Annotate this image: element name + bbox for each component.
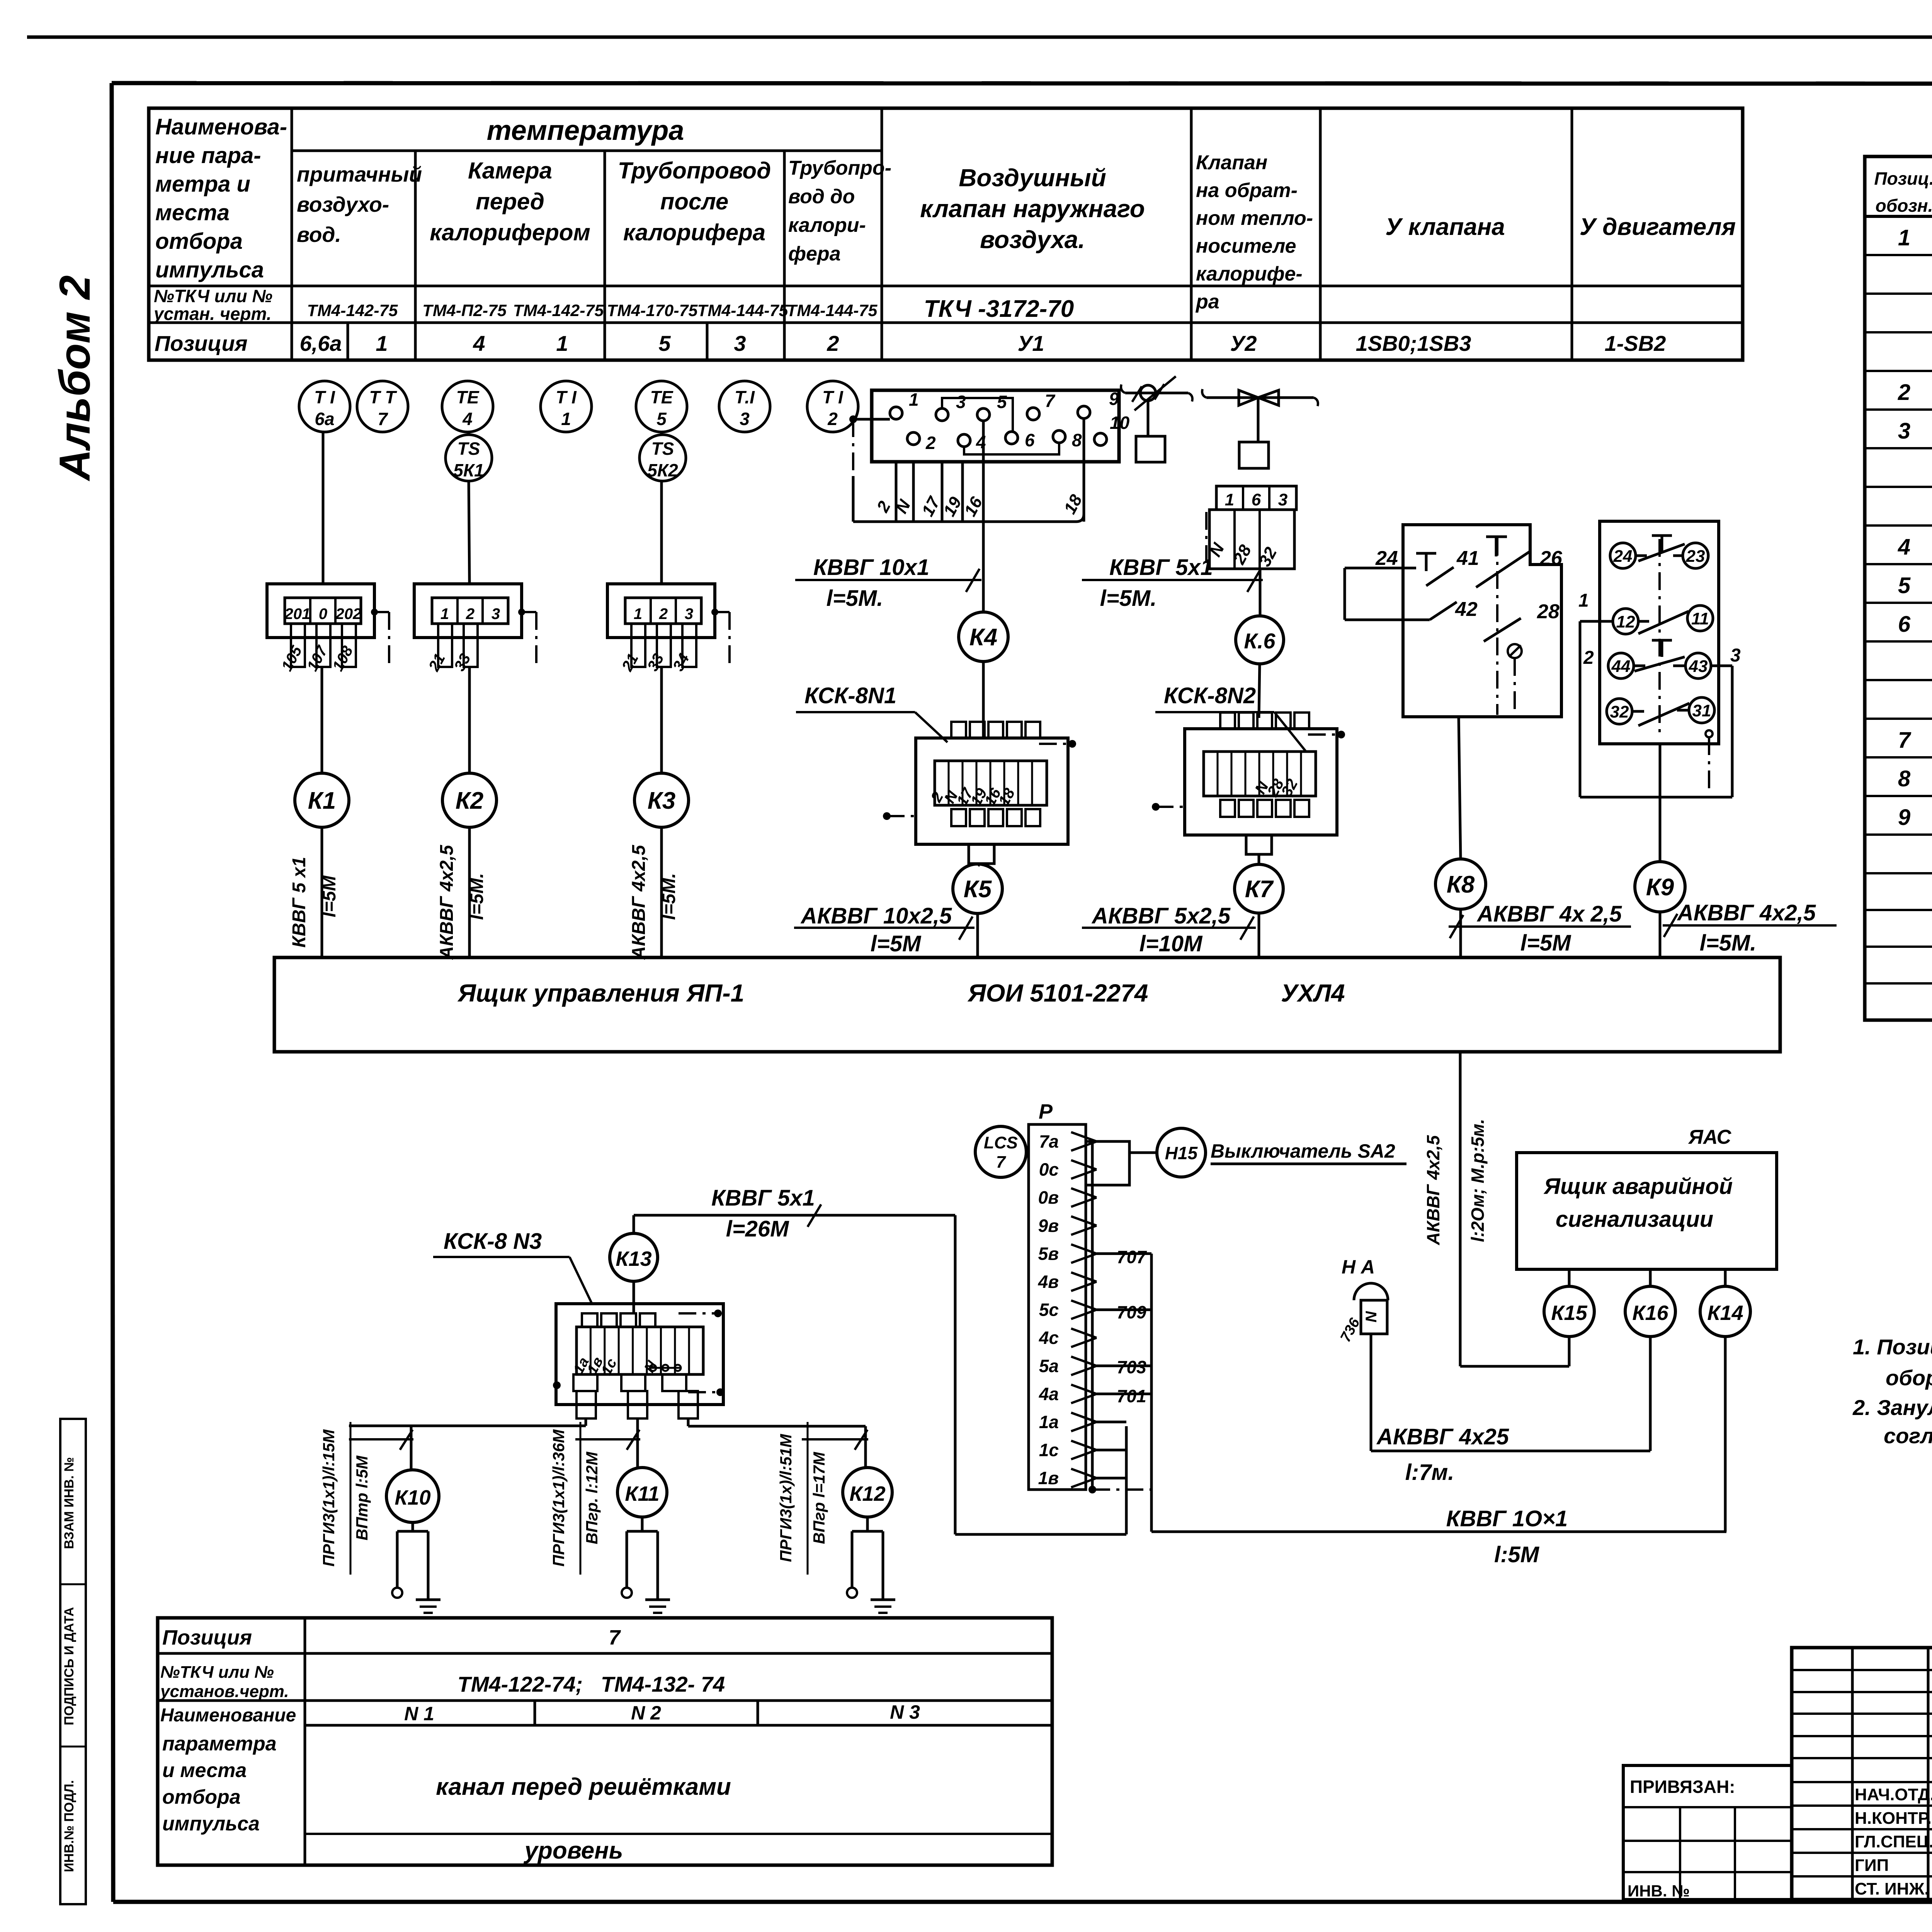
svg-text:калори-: калори- (788, 214, 866, 236)
svg-text:7: 7 (996, 1153, 1007, 1172)
svg-text:8: 8 (1898, 766, 1911, 791)
svg-text:АКВВГ 10х2,5: АКВВГ 10х2,5 (800, 903, 952, 929)
svg-text:ИНВ. №: ИНВ. № (1628, 1882, 1690, 1900)
svg-text:l=5М: l=5М (871, 931, 922, 956)
svg-text:N 3: N 3 (890, 1701, 920, 1723)
svg-text:Клапан: Клапан (1196, 151, 1267, 174)
svg-text:оборудования АТХ.СО Альбом 4.: оборудования АТХ.СО Альбом 4. (1886, 1366, 1932, 1390)
svg-text:Т.I: Т.I (735, 387, 755, 407)
svg-text:Альбом 2: Альбом 2 (51, 275, 99, 481)
svg-text:7: 7 (1045, 391, 1056, 411)
svg-text:4а: 4а (1039, 1384, 1059, 1404)
svg-text:1: 1 (1898, 225, 1910, 250)
svg-text:воздухо-: воздухо- (297, 192, 389, 216)
svg-text:1: 1 (634, 605, 642, 622)
svg-text:703: 703 (1117, 1357, 1146, 1377)
svg-text:201: 201 (284, 605, 311, 622)
svg-text:ПОДПИСЬ И ДАТА: ПОДПИСЬ И ДАТА (62, 1607, 77, 1725)
svg-text:41: 41 (1456, 547, 1479, 570)
svg-text:2: 2 (827, 409, 838, 429)
svg-text:ние пара-: ние пара- (155, 143, 261, 168)
svg-text:места: места (155, 200, 230, 225)
svg-text:ВЗАМ ИНВ. №: ВЗАМ ИНВ. № (62, 1457, 77, 1549)
svg-text:сигнализации: сигнализации (1556, 1207, 1713, 1232)
svg-text:К2: К2 (456, 787, 484, 814)
svg-text:707: 707 (1117, 1247, 1147, 1267)
svg-text:калорифе-: калорифе- (1196, 263, 1303, 285)
svg-text:2. Зануление ящиков, аппаратов: 2. Зануление ящиков, аппаратов выполнить (1852, 1395, 1932, 1420)
svg-text:К.6: К.6 (1244, 629, 1276, 653)
svg-text:11: 11 (1691, 609, 1709, 628)
svg-text:носителе: носителе (1196, 235, 1296, 257)
svg-text:ВПгр l=17М: ВПгр l=17М (810, 1452, 828, 1544)
svg-text:на обрат-: на обрат- (1196, 179, 1298, 202)
svg-text:5: 5 (997, 392, 1007, 412)
svg-text:перед: перед (476, 189, 544, 214)
svg-text:ном тепло-: ном тепло- (1196, 207, 1313, 230)
svg-text:l=26М: l=26М (726, 1216, 789, 1242)
svg-text:Воздушный: Воздушный (959, 164, 1106, 192)
svg-text:Позиция: Позиция (162, 1626, 252, 1649)
svg-text:42: 42 (1455, 598, 1478, 621)
svg-text:Ящик аварийной: Ящик аварийной (1543, 1174, 1733, 1199)
svg-text:Наименование: Наименование (160, 1705, 296, 1726)
svg-text:К15: К15 (1551, 1301, 1587, 1325)
svg-text:2: 2 (1898, 380, 1910, 405)
svg-text:N: N (1363, 1311, 1380, 1322)
svg-text:Н15: Н15 (1165, 1143, 1198, 1163)
svg-text:0с: 0с (1039, 1160, 1059, 1180)
svg-text:1а: 1а (1039, 1412, 1059, 1432)
svg-text:10: 10 (1110, 413, 1130, 433)
svg-text:К10: К10 (395, 1486, 430, 1509)
svg-text:5в: 5в (1038, 1243, 1059, 1264)
svg-text:Камера: Камера (468, 158, 552, 184)
svg-text:Ящик управления ЯП-1: Ящик управления ЯП-1 (457, 979, 744, 1007)
svg-text:фера: фера (788, 243, 841, 265)
svg-text:метра и: метра и (155, 172, 250, 197)
svg-text:согласно ПУЭ85.I-7-46: согласно ПУЭ85.I-7-46 (1884, 1423, 1932, 1448)
svg-text:709: 709 (1117, 1302, 1146, 1322)
svg-text:АКВВГ 4х2,5: АКВВГ 4х2,5 (1423, 1135, 1443, 1245)
svg-text:2: 2 (1583, 648, 1594, 668)
svg-text:№ТКЧ или №: №ТКЧ или № (154, 286, 272, 306)
svg-text:ТМ4-170-75: ТМ4-170-75 (607, 301, 698, 320)
svg-text:К4: К4 (969, 624, 998, 651)
svg-text:К9: К9 (1646, 874, 1674, 901)
svg-text:26: 26 (1539, 547, 1563, 570)
svg-text:1: 1 (376, 331, 388, 355)
svg-text:калорифера: калорифера (623, 219, 765, 245)
svg-text:установ.черт.: установ.черт. (160, 1682, 289, 1701)
svg-text:ТМ4-144-75: ТМ4-144-75 (697, 301, 789, 320)
svg-text:l:5М: l:5М (1494, 1542, 1540, 1567)
svg-text:32: 32 (1610, 702, 1629, 721)
svg-text:КСК-8N2: КСК-8N2 (1164, 683, 1256, 708)
svg-text:0: 0 (319, 605, 327, 622)
svg-text:5К1: 5К1 (453, 460, 484, 480)
svg-text:ПРИВЯЗАН:: ПРИВЯЗАН: (1630, 1777, 1735, 1797)
svg-text:l=5М.: l=5М. (1700, 930, 1757, 956)
svg-text:ТS: ТS (457, 439, 480, 459)
svg-text:АКВВГ 4х 2,5: АКВВГ 4х 2,5 (1476, 901, 1622, 927)
svg-text:и места: и места (162, 1759, 247, 1782)
svg-text:ра: ра (1195, 291, 1219, 313)
svg-text:К16: К16 (1632, 1301, 1668, 1325)
svg-text:1: 1 (1578, 590, 1589, 611)
svg-text:НАЧ.ОТД.: НАЧ.ОТД. (1855, 1785, 1932, 1804)
svg-text:К13: К13 (616, 1247, 651, 1270)
svg-text:3: 3 (1898, 418, 1910, 444)
svg-text:3: 3 (685, 605, 693, 622)
svg-text:АКВВГ 4х2,5: АКВВГ 4х2,5 (1677, 900, 1816, 925)
svg-text:23: 23 (1686, 547, 1705, 566)
svg-text:Н.КОНТР.: Н.КОНТР. (1855, 1809, 1932, 1828)
svg-text:СТ. ИНЖ.: СТ. ИНЖ. (1855, 1879, 1929, 1898)
svg-text:обозн.: обозн. (1876, 196, 1932, 216)
svg-text:5: 5 (658, 331, 671, 355)
svg-text:2: 2 (827, 331, 839, 355)
svg-text:3: 3 (734, 331, 746, 355)
svg-text:АКВВГ 4х2,5: АКВВГ 4х2,5 (629, 844, 649, 960)
svg-text:Трубопро-: Трубопро- (788, 157, 891, 179)
svg-text:l=5М.: l=5М. (1100, 586, 1157, 611)
svg-text:УХЛ4: УХЛ4 (1281, 979, 1345, 1007)
svg-text:Т I: Т I (556, 387, 577, 407)
svg-text:КВВГ 5х1: КВВГ 5х1 (1109, 555, 1213, 580)
svg-text:43: 43 (1689, 657, 1708, 676)
svg-text:К7: К7 (1245, 876, 1274, 903)
svg-text:ГЛ.СПЕЦ.: ГЛ.СПЕЦ. (1855, 1832, 1932, 1851)
svg-text:К8: К8 (1447, 871, 1475, 898)
svg-text:ТМ4-142-75: ТМ4-142-75 (307, 301, 398, 320)
svg-text:калорифером: калорифером (430, 219, 590, 245)
svg-text:ЯАС: ЯАС (1688, 1126, 1732, 1148)
svg-text:К1: К1 (308, 787, 336, 814)
svg-text:К3: К3 (648, 787, 676, 814)
svg-text:К12: К12 (849, 1482, 885, 1505)
svg-text:701: 701 (1117, 1386, 1146, 1406)
svg-text:202: 202 (335, 605, 362, 622)
svg-text:3: 3 (1278, 490, 1287, 509)
svg-text:№ТКЧ или №: №ТКЧ или № (160, 1663, 274, 1682)
svg-text:отбора: отбора (155, 229, 243, 254)
svg-text:1SВ0;1SВ3: 1SВ0;1SВ3 (1356, 331, 1471, 355)
svg-text:КСК-8N1: КСК-8N1 (804, 683, 896, 708)
svg-text:28: 28 (1537, 600, 1560, 623)
svg-text:0в: 0в (1038, 1187, 1059, 1207)
svg-text:7: 7 (1898, 728, 1912, 753)
svg-text:АКВВГ 4х2,5: АКВВГ 4х2,5 (437, 844, 457, 960)
svg-text:канал перед решётками: канал перед решётками (436, 1774, 731, 1800)
svg-text:5: 5 (656, 409, 667, 429)
svg-text:5с: 5с (1039, 1300, 1059, 1320)
svg-text:1: 1 (909, 389, 919, 410)
svg-text:1в: 1в (1038, 1468, 1059, 1488)
svg-text:ЯОИ 5101-2274: ЯОИ 5101-2274 (967, 979, 1148, 1007)
svg-text:l=5М: l=5М (1520, 930, 1571, 956)
svg-text:КВВГ 5х1: КВВГ 5х1 (711, 1185, 815, 1211)
svg-text:1: 1 (1225, 490, 1234, 509)
svg-text:31: 31 (1692, 701, 1711, 720)
svg-text:ТМ4-П2-75: ТМ4-П2-75 (422, 301, 507, 320)
svg-text:ТМ4-144-75: ТМ4-144-75 (787, 301, 878, 320)
svg-text:ПРГИ3(1х)/l:51М: ПРГИ3(1х)/l:51М (777, 1434, 795, 1562)
svg-text:У2: У2 (1230, 331, 1257, 355)
svg-text:6а: 6а (315, 409, 334, 429)
svg-text:4с: 4с (1039, 1328, 1059, 1348)
svg-text:КВВГ 1О×1: КВВГ 1О×1 (1446, 1506, 1568, 1531)
svg-text:ТКЧ -3172-70: ТКЧ -3172-70 (924, 296, 1074, 322)
svg-text:4в: 4в (1038, 1272, 1059, 1292)
svg-text:Трубопровод: Трубопровод (618, 158, 771, 184)
svg-text:4: 4 (473, 331, 485, 355)
svg-text:Н А: Н А (1342, 1256, 1375, 1278)
svg-text:6: 6 (1898, 612, 1911, 637)
svg-text:Т I: Т I (314, 387, 335, 407)
svg-text:9в: 9в (1038, 1216, 1059, 1236)
svg-text:1: 1 (556, 331, 568, 355)
svg-text:5а: 5а (1039, 1356, 1059, 1376)
svg-text:l:7м.: l:7м. (1405, 1460, 1454, 1485)
svg-text:9: 9 (1898, 805, 1910, 830)
svg-text:ПРГИ3(1х1)/l:36М: ПРГИ3(1х1)/l:36М (549, 1429, 568, 1567)
svg-text:5: 5 (1898, 573, 1911, 598)
svg-text:ТМ4-142-75: ТМ4-142-75 (513, 301, 604, 320)
svg-text:3: 3 (492, 605, 500, 622)
svg-text:КВВГ 5 х1: КВВГ 5 х1 (289, 857, 310, 947)
svg-text:ГИП: ГИП (1855, 1856, 1889, 1875)
svg-text:ТЕ: ТЕ (456, 387, 480, 407)
svg-text:воздуха.: воздуха. (980, 226, 1085, 253)
svg-text:вод.: вод. (297, 223, 341, 247)
svg-text:К5: К5 (964, 876, 992, 903)
svg-text:7а: 7а (1039, 1131, 1059, 1151)
svg-text:Р: Р (1039, 1100, 1053, 1123)
svg-text:К14: К14 (1707, 1301, 1743, 1325)
svg-text:8: 8 (1072, 430, 1082, 450)
svg-text:после: после (660, 189, 729, 214)
svg-text:АКВВГ 5х2,5: АКВВГ 5х2,5 (1091, 903, 1231, 929)
svg-text:l=5М.: l=5М. (827, 586, 883, 611)
svg-text:импульса: импульса (155, 257, 264, 282)
svg-text:3: 3 (1730, 645, 1741, 666)
svg-text:12: 12 (1616, 612, 1635, 631)
svg-text:Т Т: Т Т (369, 387, 398, 407)
svg-text:ТЕ: ТЕ (650, 387, 673, 407)
svg-text:2: 2 (466, 605, 474, 622)
svg-text:Выключатель SA2: Выключатель SA2 (1211, 1140, 1395, 1162)
svg-text:ВПгр. l:12М: ВПгр. l:12М (583, 1451, 601, 1544)
svg-text:температура: температура (487, 115, 684, 146)
svg-text:6,6а: 6,6а (300, 331, 342, 355)
svg-text:7: 7 (609, 1626, 621, 1649)
svg-text:l:2Ом; М.р:5м.: l:2Ом; М.р:5м. (1468, 1119, 1488, 1242)
svg-text:клапан наружнаго: клапан наружнаго (920, 195, 1145, 223)
svg-text:параметра: параметра (162, 1733, 277, 1755)
svg-text:l=5М: l=5М (319, 875, 340, 917)
svg-text:К11: К11 (625, 1482, 659, 1505)
svg-text:вод до: вод до (788, 185, 855, 208)
svg-text:Наименова-: Наименова- (155, 114, 287, 139)
svg-text:24: 24 (1613, 547, 1633, 566)
svg-text:притачный: притачный (297, 162, 422, 186)
svg-text:1: 1 (561, 409, 571, 429)
svg-text:1: 1 (440, 605, 449, 622)
svg-text:АКВВГ 4х25: АКВВГ 4х25 (1376, 1424, 1509, 1449)
svg-text:l=10М: l=10М (1139, 931, 1203, 956)
svg-text:N 1: N 1 (404, 1703, 434, 1725)
svg-text:ПРГИ3(1х1)/l:15М: ПРГИ3(1х1)/l:15М (320, 1429, 338, 1567)
svg-text:2: 2 (659, 605, 668, 622)
svg-text:1. Позиции приборов соответств: 1. Позиции приборов соответствуют специф… (1853, 1335, 1932, 1359)
svg-text:У клапана: У клапана (1385, 214, 1505, 240)
svg-text:У двигателя: У двигателя (1580, 214, 1736, 240)
svg-text:24: 24 (1375, 547, 1398, 570)
svg-text:1-SВ2: 1-SВ2 (1605, 331, 1666, 355)
svg-text:ТS: ТS (651, 439, 674, 459)
svg-text:ТМ4-122-74; ТМ4-132- 74: ТМ4-122-74; ТМ4-132- 74 (457, 1672, 725, 1696)
svg-text:6: 6 (1252, 490, 1261, 509)
svg-text:4: 4 (1898, 534, 1910, 560)
svg-text:У1: У1 (1017, 331, 1044, 355)
svg-text:N 2: N 2 (631, 1702, 661, 1724)
svg-text:6: 6 (1025, 430, 1035, 450)
svg-text:КВВГ 10х1: КВВГ 10х1 (813, 555, 929, 580)
svg-text:импульса: импульса (162, 1813, 260, 1835)
svg-text:1с: 1с (1039, 1440, 1059, 1460)
svg-text:l=5М.: l=5М. (659, 873, 679, 920)
svg-text:l=5М.: l=5М. (467, 873, 487, 920)
svg-text:ВПтр l:5М: ВПтр l:5М (353, 1455, 371, 1540)
svg-text:уровень: уровень (524, 1837, 623, 1864)
svg-text:КСК-8 N3: КСК-8 N3 (444, 1229, 542, 1254)
svg-text:Т I: Т I (822, 387, 844, 407)
svg-text:LCS: LCS (984, 1133, 1018, 1152)
svg-text:Позиц.: Позиц. (1874, 168, 1932, 189)
svg-text:устан. черт.: устан. черт. (153, 304, 272, 324)
svg-text:Позиция: Позиция (155, 331, 248, 355)
svg-text:5К2: 5К2 (647, 460, 678, 480)
svg-text:2: 2 (925, 433, 936, 453)
svg-text:отбора: отбора (162, 1786, 241, 1808)
svg-text:3: 3 (740, 409, 750, 429)
svg-text:3: 3 (956, 392, 966, 412)
svg-text:ИНВ.№ ПОДЛ.: ИНВ.№ ПОДЛ. (62, 1780, 77, 1872)
svg-text:9: 9 (1109, 389, 1119, 409)
svg-text:7: 7 (378, 409, 388, 429)
svg-text:4: 4 (462, 409, 473, 429)
svg-text:44: 44 (1611, 657, 1631, 676)
